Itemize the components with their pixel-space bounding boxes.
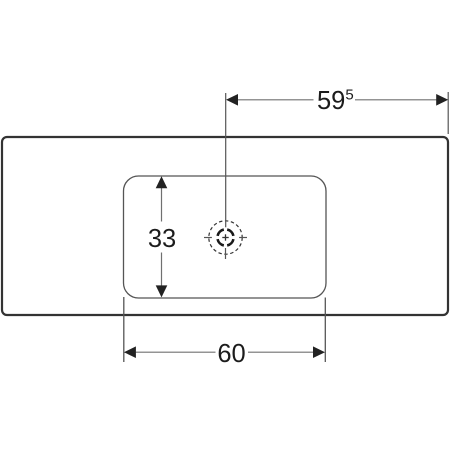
arrowhead 33 down (156, 285, 168, 297)
tap hole centerline segments (204, 238, 247, 260)
arrowhead 60 left (124, 346, 136, 358)
dimension line 59.5 right segment (355, 99, 437, 101)
tap hole center cross (222, 234, 228, 240)
arrowhead 59.5 right (436, 94, 448, 106)
dimension line 59.5 left segment (238, 99, 314, 101)
extension line basin left for 60 dimension (123, 297, 125, 362)
arrowhead 60 right (313, 346, 325, 358)
tap hole bold ring arcs (218, 230, 234, 246)
svg-text:60: 60 (217, 340, 245, 368)
dimension line 33 top segment (161, 188, 163, 222)
arrowhead 33 up (156, 176, 168, 188)
extension line basin right for 60 dimension (324, 298, 326, 363)
svg-text:33: 33 (148, 225, 176, 253)
extension line from tap hole up to top dimension (225, 93, 227, 227)
arrowhead 59.5 left (226, 94, 238, 106)
extension line right edge for 59.5 dimension (447, 92, 449, 134)
dimension line 33 bottom segment (161, 253, 163, 287)
tap hole dashed circle (209, 221, 242, 254)
basin cutout outline (124, 176, 327, 298)
countertop outline (2, 137, 448, 315)
dimension line 60 left segment (135, 351, 216, 353)
dimension line 60 right segment (248, 351, 314, 353)
